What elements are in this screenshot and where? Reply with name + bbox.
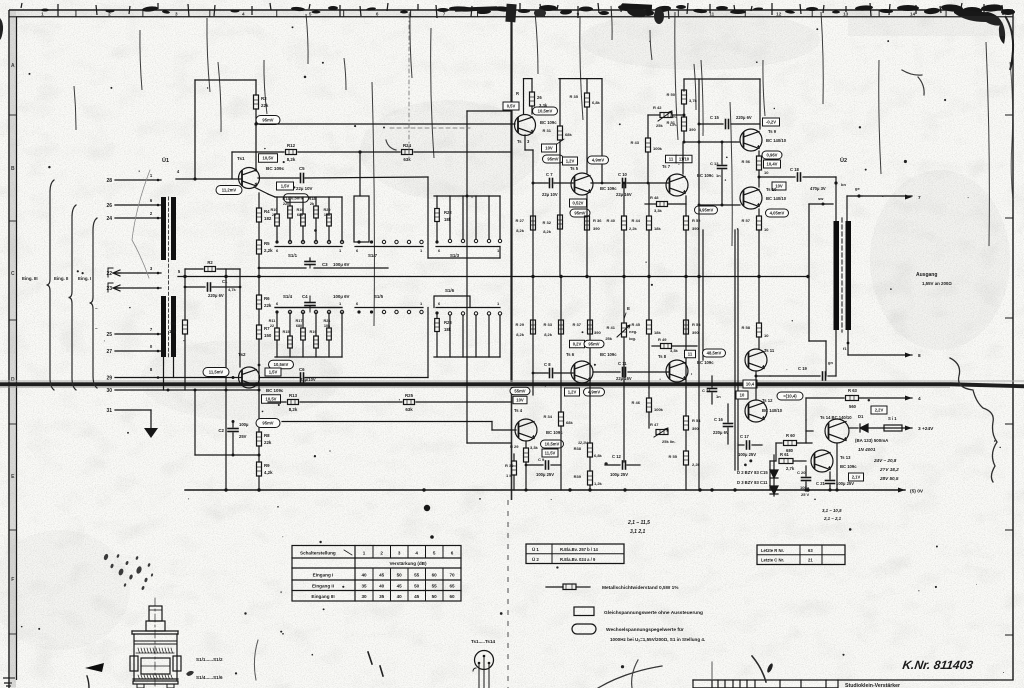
smudge cluster left-bottom [103, 553, 109, 560]
diode D1 [849, 427, 858, 429]
svg-text:BC 140/10: BC 140/10 [766, 196, 787, 201]
svg-text:R 52: R 52 [692, 218, 701, 223]
boxed 10,5V under Ts2 [262, 395, 281, 404]
svg-text:100µ 6V: 100µ 6V [333, 262, 350, 267]
svg-text:65: 65 [449, 584, 455, 589]
ground symbol [144, 428, 158, 438]
svg-text:S1/1: S1/1 [288, 253, 298, 258]
svg-text:Ts2: Ts2 [238, 352, 246, 357]
black arrow mark [85, 663, 104, 672]
svg-text:Ts1: Ts1 [237, 156, 245, 161]
svg-text:6: 6 [451, 551, 454, 556]
wire box around Ts1 [195, 79, 256, 81]
Schalterstellung gain table [292, 546, 461, 602]
mid-region columns R29,R33,R37,R41,R45,R53,R58 below bus [532, 277, 534, 374]
svg-text:10: 10 [764, 333, 769, 338]
svg-text:R 42: R 42 [653, 105, 662, 110]
wire corner from C5 node down and right under S1/3 [427, 177, 429, 258]
Ts14 emitter/collector wires [836, 443, 838, 490]
R40 column [623, 183, 625, 216]
svg-text:Ts 8: Ts 8 [658, 354, 667, 359]
mechanical drawing of rotary switch [154, 598, 156, 688]
svg-text:-0,2V: -0,2V [766, 120, 776, 125]
svg-text:R22: R22 [444, 210, 452, 215]
svg-text:R 40: R 40 [607, 218, 616, 223]
transistors Ts12 [745, 400, 767, 422]
svg-text:0,52V: 0,52V [573, 201, 584, 206]
transformer U2 winding bars [834, 221, 840, 330]
transistor Ts7 [666, 174, 688, 196]
svg-text:10V: 10V [516, 398, 524, 403]
switch bank S1/1 [275, 196, 342, 198]
svg-text:95mV: 95mV [262, 421, 273, 426]
svg-text:R 32: R 32 [543, 220, 552, 225]
svg-text:100µ 25V: 100µ 25V [738, 452, 756, 457]
svg-text:18k: 18k [444, 217, 452, 222]
svg-text:63k: 63k [403, 157, 411, 162]
svg-text:680: 680 [296, 324, 302, 328]
svg-text:11,5V: 11,5V [545, 451, 556, 456]
dash-dot crease line [408, 14, 410, 160]
svg-text:R9: R9 [264, 463, 270, 468]
svg-text:R25: R25 [405, 393, 414, 398]
svg-text:11,2mV: 11,2mV [222, 188, 237, 193]
svg-text:10: 10 [740, 393, 745, 398]
capacitor C6 and wire to x424 [259, 377, 299, 379]
svg-text:Ts 11: Ts 11 [764, 348, 775, 353]
svg-text:45: 45 [397, 584, 403, 589]
R61 [770, 460, 776, 462]
svg-text:100k: 100k [653, 146, 663, 151]
long wire to page split at y124 [256, 123, 511, 125]
svg-text:560: 560 [849, 404, 857, 409]
svg-text:R12: R12 [287, 143, 296, 148]
svg-text:45: 45 [379, 573, 385, 578]
input pin wires 28,26,24,22,23,25,27,29,30,31 [115, 179, 161, 181]
svg-text:S1/6: S1/6 [445, 288, 455, 293]
svg-text:680: 680 [297, 213, 303, 217]
svg-text:S1/4: S1/4 [283, 294, 293, 299]
svg-text:1,2V: 1,2V [566, 159, 575, 164]
svg-text:4,9mV: 4,9mV [592, 158, 605, 163]
svg-text:10V: 10V [775, 184, 783, 189]
svg-text:2,1 – 2,1: 2,1 – 2,1 [823, 516, 842, 521]
svg-text:R3: R3 [261, 96, 267, 101]
svg-text:Ü 2: Ü 2 [532, 557, 539, 562]
svg-text:182: 182 [264, 216, 272, 221]
svg-text:R4: R4 [264, 209, 270, 214]
horizontal scan seam band across both pages [0, 380, 1024, 388]
coupling C10 to Ts7 [591, 182, 620, 184]
svg-text:R 57: R 57 [742, 218, 751, 223]
faint grey scan clouds [360, 100, 540, 200]
svg-text:Verstärkung (dB): Verstärkung (dB) [389, 561, 426, 566]
svg-text:1,2k: 1,2k [594, 481, 603, 486]
svg-text:3,1 – 10,5: 3,1 – 10,5 [822, 508, 842, 513]
transformer U2 core dashes [841, 218, 843, 332]
svg-text:220µ 6V: 220µ 6V [208, 293, 224, 298]
svg-text:40: 40 [379, 584, 385, 589]
frame right ruler ticks [1005, 114, 1013, 116]
svg-text:R14: R14 [283, 197, 291, 201]
svg-text:Letzte C Nr.: Letzte C Nr. [761, 558, 784, 563]
svg-text:0,96V: 0,96V [767, 153, 778, 158]
transistor Ts1 [239, 168, 260, 189]
vertical from C18 node down to U2 primary [835, 177, 837, 221]
svg-text:R 49: R 49 [658, 337, 667, 342]
svg-text:Ts 7: Ts 7 [662, 164, 671, 169]
svg-text:10,5V: 10,5V [263, 156, 274, 161]
svg-text:gn: gn [828, 360, 833, 365]
svg-text:11: 11 [669, 157, 674, 162]
svg-text:R20: R20 [324, 208, 331, 212]
svg-text:C 20: C 20 [797, 470, 806, 475]
svg-text:4,2k: 4,2k [264, 470, 273, 475]
svg-text:R 37: R 37 [573, 322, 582, 327]
capacitor C2 [232, 422, 234, 428]
svg-text:18k: 18k [444, 327, 452, 332]
svg-text:S i 1: S i 1 [888, 416, 897, 421]
switch bank S1/3 with R22 [434, 195, 500, 197]
svg-text:21: 21 [808, 558, 813, 563]
input group braces Eing.III / Eing.II / Eing.I [47, 180, 55, 390]
last reference numbers table [757, 545, 845, 565]
svg-text:2,2k: 2,2k [629, 226, 638, 231]
vertical from S1/5 bus down to C6 wire [427, 308, 429, 378]
svg-text:3,3k: 3,3k [530, 445, 539, 450]
transistor Ts9 [740, 129, 762, 151]
svg-text:E: E [627, 306, 630, 311]
svg-text:Gleichspannungswerte ohne Auss: Gleichspannungswerte ohne Aussteuerung [604, 610, 703, 616]
svg-text:R23: R23 [444, 320, 452, 325]
svg-text:25 V: 25 V [801, 492, 810, 497]
svg-text:C6: C6 [299, 367, 305, 372]
svg-text:≈(10,4): ≈(10,4) [783, 394, 797, 399]
wire from C7 node to Ts5 base [533, 182, 548, 184]
svg-text:D 2 BZY 83 C15: D 2 BZY 83 C15 [737, 470, 768, 475]
svg-text:R 29: R 29 [516, 322, 525, 327]
left edge blob [0, 18, 3, 40]
transistor Ts10 [740, 187, 762, 209]
svg-text:1,55V an 200Ω: 1,55V an 200Ω [922, 281, 952, 286]
svg-text:470µ 3V: 470µ 3V [810, 186, 826, 191]
svg-text:35: 35 [379, 594, 385, 599]
svg-text:K.Nr. 811403: K.Nr. 811403 [902, 658, 975, 672]
svg-text:10,4: 10,4 [746, 382, 755, 387]
svg-text:100µ: 100µ [239, 422, 249, 427]
svg-text:1,2V: 1,2V [568, 390, 577, 395]
svg-text:C 9: C 9 [538, 457, 545, 462]
capacitor C12 [605, 464, 620, 466]
svg-text:55: 55 [414, 573, 420, 578]
svg-text:C 7: C 7 [546, 172, 553, 177]
svg-text:S1/4......S1/6: S1/4......S1/6 [196, 675, 223, 680]
svg-text:2,1 – 11,5: 2,1 – 11,5 [627, 520, 650, 526]
svg-text:Ü2: Ü2 [840, 157, 847, 164]
svg-text:95mV: 95mV [588, 342, 599, 347]
svg-text:R 61: R 61 [780, 452, 790, 457]
svg-text:R2: R2 [207, 260, 213, 265]
C18 output coupling [759, 176, 795, 178]
svg-text:28V 50,5: 28V 50,5 [879, 476, 899, 481]
labels above Ts6 [570, 340, 585, 348]
Ts10 emitter through R57 [758, 209, 760, 216]
svg-text:1n: 1n [716, 173, 721, 178]
svg-text:10,5V: 10,5V [266, 397, 277, 402]
svg-text:C1: C1 [222, 279, 228, 284]
svg-text:R19: R19 [310, 330, 317, 334]
svg-text:22µ 10V: 22µ 10V [542, 192, 558, 197]
svg-text:1N 4001: 1N 4001 [858, 447, 876, 452]
wire y152 with R12 and R24 [232, 151, 284, 153]
svg-text:5: 5 [433, 551, 436, 556]
transistor Ts11 [745, 349, 767, 371]
svg-text:4,95mV: 4,95mV [699, 208, 714, 213]
svg-text:390: 390 [692, 330, 699, 335]
svg-text:Ts1.....Ts14: Ts1.....Ts14 [471, 639, 496, 644]
transformer bottom taps [163, 357, 165, 390]
svg-text:3,1 2,1: 3,1 2,1 [630, 529, 646, 535]
svg-text:R 50: R 50 [667, 92, 676, 97]
pin wire 29 continues to Ts2 base [115, 377, 241, 379]
svg-text:~: ~ [95, 306, 98, 311]
scan shadow in ruler margins [10, 11, 16, 688]
svg-text:R 56: R 56 [742, 159, 751, 164]
R56 between Ts9 and Ts10 [758, 151, 760, 156]
svg-text:3: 3 [398, 551, 401, 556]
legend: AC value oval symbol [572, 624, 596, 634]
svg-text:R 33: R 33 [544, 322, 553, 327]
svg-text:40: 40 [397, 594, 403, 599]
svg-text:25k: 25k [656, 123, 663, 128]
svg-text:C 17: C 17 [740, 434, 750, 439]
capacitor C9 [526, 464, 543, 466]
resistor R63 wire to arrow 4 [806, 397, 844, 399]
capacitor C14 [708, 388, 717, 390]
svg-text:100µ 25V: 100µ 25V [610, 472, 628, 477]
R60 [776, 442, 782, 444]
svg-text:bn: bn [841, 182, 846, 187]
frame top ruler line [9, 16, 1013, 18]
svg-text:95mV: 95mV [262, 118, 273, 123]
R50 / R51 column [683, 79, 685, 91]
svg-text:Ts 14 BC 140/10: Ts 14 BC 140/10 [820, 415, 852, 420]
svg-text:Wechselspannungspegelwerte für: Wechselspannungspegelwerte für [606, 627, 684, 633]
arrow and 0V label at end of bottom bus [898, 488, 905, 493]
svg-text:22µ 16V: 22µ 16V [616, 376, 632, 381]
Ts9 base wire y142 [684, 141, 739, 143]
svg-text:C3: C3 [322, 262, 328, 267]
svg-text:Ts 4: Ts 4 [514, 408, 523, 413]
svg-text:22k: 22k [264, 303, 272, 308]
svg-text:Ts 6: Ts 6 [566, 352, 575, 357]
transformer U1 core dashed line [168, 197, 170, 357]
svg-text:C5: C5 [299, 166, 305, 171]
curved scratch upper left [132, 170, 150, 278]
svg-text:S1/1......S1/2: S1/1......S1/2 [196, 657, 223, 662]
transistor Ts4 [515, 419, 537, 441]
svg-text:C 19: C 19 [798, 366, 808, 371]
svg-text:R 46: R 46 [632, 400, 641, 405]
Ts7 collector up [682, 142, 684, 174]
svg-text:45: 45 [414, 594, 420, 599]
fuse Si1 [868, 427, 884, 429]
page split smudge at top [505, 4, 516, 23]
switch bank S1/4 resistors [276, 312, 278, 328]
scan dirt smudges along top edge [41, 9, 49, 12]
svg-text:C 12: C 12 [612, 454, 622, 459]
svg-text:Letzte R Nr.: Letzte R Nr. [761, 548, 784, 553]
svg-text:R.Ela.Bv. 257 b / 14: R.Ela.Bv. 257 b / 14 [560, 547, 599, 552]
svg-text:8,2k: 8,2k [544, 332, 553, 337]
svg-text:Ts 12: Ts 12 [762, 398, 773, 403]
svg-text:0,5V: 0,5V [507, 104, 516, 109]
svg-text:ge: ge [855, 186, 860, 191]
svg-text:D1: D1 [858, 414, 864, 419]
svg-text:log.: log. [629, 336, 636, 341]
transformer type table U1/U2 [526, 544, 624, 564]
svg-text:D 3 BZY 83 C11: D 3 BZY 83 C11 [737, 480, 768, 485]
transistor Ts5 [571, 173, 593, 195]
svg-text:C 15: C 15 [710, 115, 720, 120]
svg-text:BC 109c: BC 109c [540, 120, 557, 125]
svg-text:C 16: C 16 [714, 417, 724, 422]
svg-text:24V ~ 20,8: 24V ~ 20,8 [873, 458, 897, 463]
svg-text:R: R [516, 91, 519, 96]
svg-text:R5: R5 [264, 241, 270, 246]
svg-text:50: 50 [414, 584, 420, 589]
svg-text:2,7k: 2,7k [786, 466, 795, 471]
svg-text:2?V 18,2: 2?V 18,2 [879, 467, 899, 472]
svg-text:8: 8 [918, 353, 921, 359]
svg-text:Lin.: Lin. [670, 115, 677, 119]
svg-text:R 41: R 41 [607, 325, 616, 330]
transistor Ts14 [825, 419, 849, 443]
svg-text:R 43: R 43 [631, 140, 640, 145]
svg-text:50: 50 [432, 594, 438, 599]
resistor R26 and transistor Ts3 [523, 79, 525, 114]
svg-text:70: 70 [449, 573, 455, 578]
svg-text:C 10: C 10 [618, 172, 628, 177]
svg-text:1 k: 1 k [506, 473, 512, 478]
svg-text:26: 26 [537, 95, 542, 100]
svg-text:C2: C2 [218, 428, 224, 433]
svg-text:BC 140/10: BC 140/10 [766, 138, 787, 143]
svg-text:R21: R21 [324, 319, 331, 323]
ink drip streaks running down from top edge [207, 18, 210, 92]
svg-text:60: 60 [449, 594, 455, 599]
wire y124 with C15 [699, 123, 723, 125]
svg-text:R 35: R 35 [570, 94, 579, 99]
oval 95mV and wire y421 [256, 419, 280, 428]
svg-text:390: 390 [594, 330, 601, 335]
svg-text:2: 2 [380, 551, 383, 556]
transistor Ts8 [666, 360, 688, 382]
svg-text:2,2k: 2,2k [692, 462, 701, 467]
frame top ruler ticks and numerals [75, 10, 77, 17]
svg-text:R10: R10 [271, 208, 278, 212]
svg-text:R8: R8 [264, 433, 270, 438]
svg-text:18k: 18k [654, 226, 661, 231]
svg-text:Ts 9: Ts 9 [768, 129, 777, 134]
svg-text:Eingang III: Eingang III [311, 594, 334, 599]
svg-text:7: 7 [918, 195, 921, 201]
svg-text:C 14: C 14 [702, 388, 711, 393]
svg-text:BC 109c: BC 109c [266, 166, 285, 171]
svg-text:30: 30 [106, 388, 112, 394]
svg-text:390: 390 [692, 426, 699, 431]
Ts10 base wire [699, 204, 740, 206]
svg-text:Ts 13: Ts 13 [840, 455, 851, 460]
svg-text:8,2k: 8,2k [516, 228, 525, 233]
svg-text:10,5mV: 10,5mV [538, 109, 553, 114]
svg-text:4: 4 [415, 551, 418, 556]
transistor Ts13 [811, 450, 833, 472]
svg-text:3 +24V: 3 +24V [918, 426, 934, 432]
svg-text:35: 35 [361, 584, 367, 589]
svg-text:100µ 25V: 100µ 25V [836, 481, 854, 486]
svg-text:220µ 6V: 220µ 6V [736, 115, 752, 120]
capacitor C17 [746, 441, 748, 449]
R48 bias resistor [645, 203, 656, 205]
svg-text:63k: 63k [405, 407, 413, 412]
svg-text:12,1V: 12,1V [578, 441, 588, 445]
svg-text:R11: R11 [269, 319, 276, 323]
svg-text:R 53: R 53 [692, 322, 701, 327]
resistor R35 column [586, 79, 588, 93]
svg-text:3,3k: 3,3k [654, 208, 663, 213]
pin wires 30 and 31 [115, 389, 259, 391]
svg-text:31: 31 [106, 408, 112, 414]
svg-text:BC 109c: BC 109c [600, 186, 617, 191]
svg-text:22: 22 [270, 324, 274, 328]
svg-text:8,2k: 8,2k [543, 229, 552, 234]
drawing frame outer border [9, 9, 1013, 11]
resistor R31 column [559, 79, 561, 126]
frame left ruler line [16, 17, 18, 680]
svg-text:Ü1: Ü1 [162, 157, 169, 164]
R34 column [560, 388, 562, 412]
svg-text:R.Ela.Bv. 024 a / 9: R.Ela.Bv. 024 a / 9 [560, 557, 596, 562]
resistor R43 column [647, 115, 649, 138]
transistor Ts6 [571, 361, 593, 383]
svg-text:R38: R38 [574, 446, 582, 451]
switch bank S1/7 [359, 152, 361, 196]
svg-text:4: 4 [918, 396, 921, 402]
page fold / split line between the two scanned sheets [510, 8, 512, 382]
long verticals mid right page [698, 79, 700, 490]
svg-text:Ausgang: Ausgang [916, 272, 937, 278]
svg-text:55: 55 [432, 584, 438, 589]
svg-text:22µ 10V: 22µ 10V [296, 186, 313, 191]
small mark bottom-left margin [3, 677, 15, 679]
wire y455 linking C2 column to divider [195, 454, 259, 456]
transistor Ts2 [239, 367, 260, 388]
legend: DC value box symbol [574, 607, 594, 616]
svg-text:R39: R39 [574, 474, 582, 479]
svg-text:R 31: R 31 [543, 128, 552, 133]
base wire from transformer pin 4 [176, 178, 241, 180]
capacitor C16 [724, 423, 733, 425]
svg-text:100µ 25V: 100µ 25V [536, 472, 554, 477]
svg-text:R 44: R 44 [632, 218, 641, 223]
svg-text:8,2k: 8,2k [516, 332, 525, 337]
svg-text:10k: 10k [324, 213, 331, 217]
svg-text:390: 390 [689, 127, 696, 132]
svg-text:R13: R13 [289, 393, 298, 398]
svg-text:30: 30 [361, 594, 367, 599]
svg-text:25k: 25k [605, 336, 612, 341]
